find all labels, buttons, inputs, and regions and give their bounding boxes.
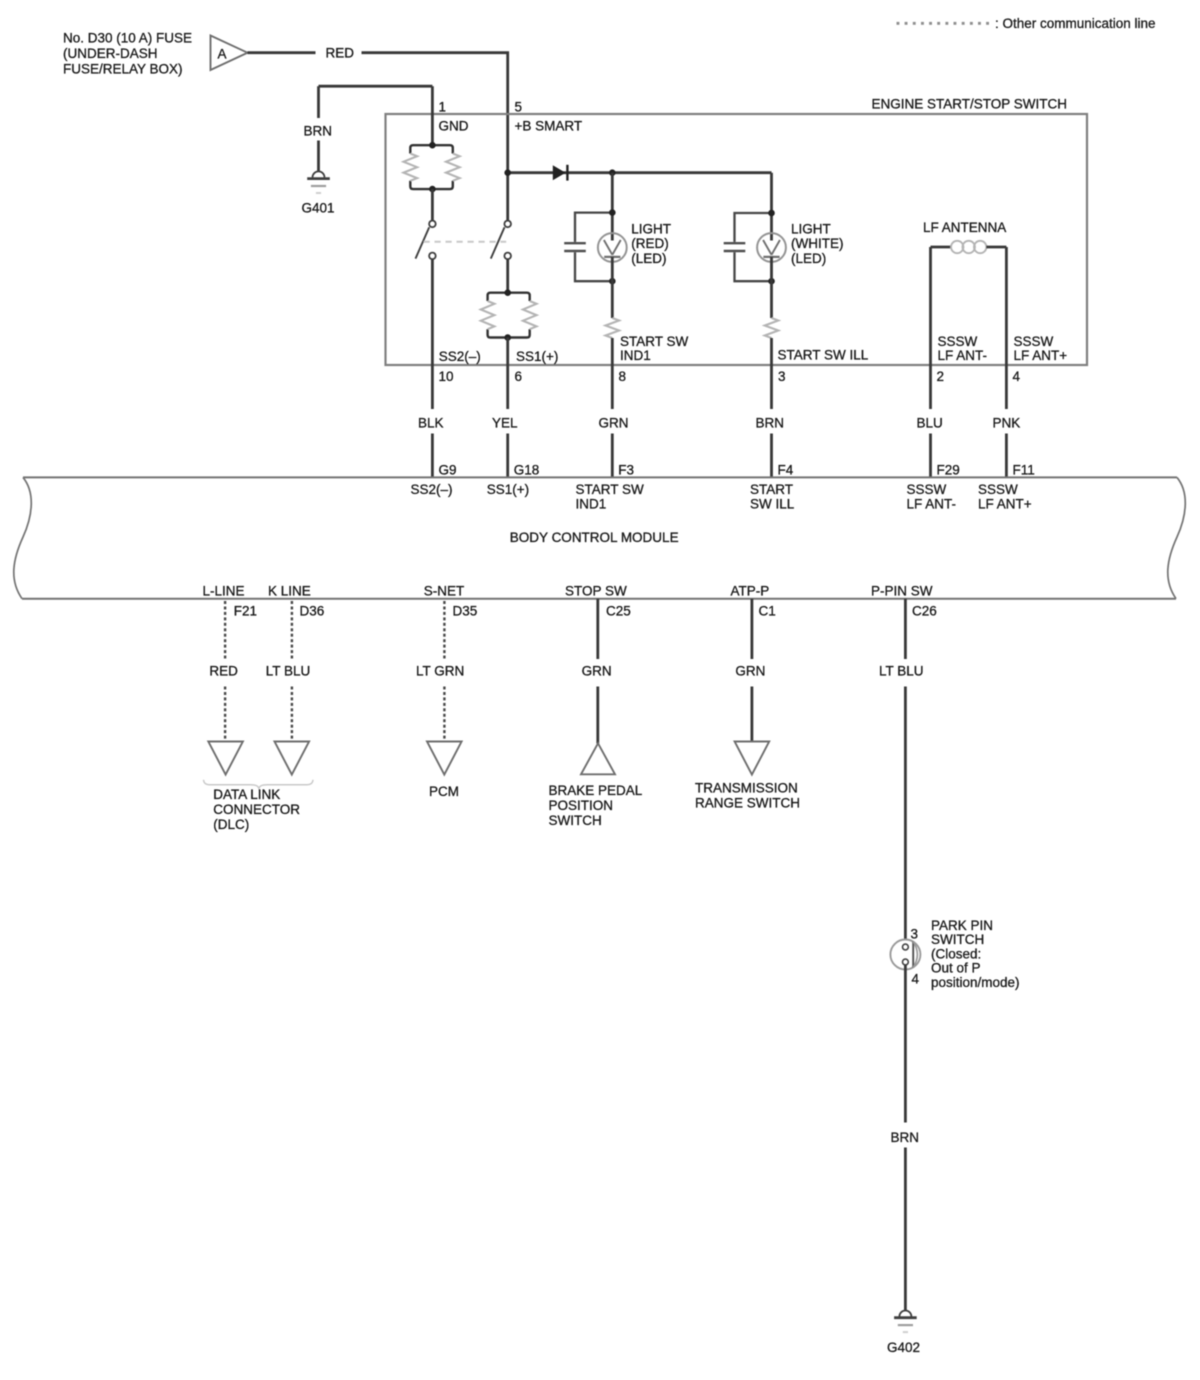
wire YEL to BCM <box>506 434 509 478</box>
wire LED white to resistor R4 <box>770 257 773 318</box>
svg-text:position/mode): position/mode) <box>931 975 1020 990</box>
svg-text:RED: RED <box>209 663 238 678</box>
svg-text:(LED): (LED) <box>631 251 666 266</box>
svg-text:SSSW: SSSW <box>1014 334 1054 349</box>
resistor R2a zigzag <box>481 301 495 329</box>
svg-text:8: 8 <box>619 369 627 384</box>
svg-text:LIGHT: LIGHT <box>631 222 671 237</box>
switch SS2 top contact <box>429 221 436 228</box>
svg-text:PARK PIN: PARK PIN <box>931 918 993 933</box>
junction dot R1 top <box>429 142 436 149</box>
svg-text:No. D30 (10 A) FUSE: No. D30 (10 A) FUSE <box>63 30 192 45</box>
junction dot cap C1 bottom <box>609 278 616 285</box>
ground G401 <box>313 171 325 177</box>
junction dot R2 bottom <box>504 334 511 341</box>
distribution wire +B <box>508 171 772 174</box>
svg-text:A: A <box>218 46 227 61</box>
fuse connector A triangle <box>211 36 248 71</box>
switch SS1 bottom contact <box>504 253 511 260</box>
resistor R4 zigzag <box>765 318 779 338</box>
comm wire L-LINE upper <box>224 601 226 604</box>
svg-text:F4: F4 <box>778 462 794 477</box>
svg-text:PCM: PCM <box>429 784 459 799</box>
junction node light red top <box>609 169 616 176</box>
resistor R1a zigzag <box>404 154 418 181</box>
svg-text:C26: C26 <box>912 604 937 619</box>
svg-text:F21: F21 <box>234 604 257 619</box>
svg-text:PNK: PNK <box>993 415 1021 430</box>
connector triangle ATP-P <box>735 742 770 775</box>
wire RED to +B SMART pin 5 <box>362 53 508 173</box>
svg-text:LT BLU: LT BLU <box>879 663 924 678</box>
svg-text:SWITCH: SWITCH <box>549 813 602 828</box>
wire GRN to BCM <box>611 434 614 478</box>
wire fuse to RED label <box>248 51 316 54</box>
svg-text:START SW: START SW <box>620 334 689 349</box>
comm wire L-LINE lower <box>224 687 226 690</box>
svg-text:S-NET: S-NET <box>424 583 465 598</box>
svg-text:LT GRN: LT GRN <box>416 663 464 678</box>
resistor pair R1 frame <box>410 145 453 153</box>
resistor R1b zigzag <box>446 154 460 181</box>
park pin switch contact 3 <box>903 944 909 950</box>
svg-text:GRN: GRN <box>582 663 612 678</box>
wire +B to switch SS1 <box>506 173 509 221</box>
svg-text:BRN: BRN <box>304 123 333 138</box>
wire down to BRN label <box>317 86 320 118</box>
svg-text:SW ILL: SW ILL <box>750 496 795 511</box>
wire P-PIN SW to park pin switch <box>904 687 907 945</box>
svg-text:START SW ILL: START SW ILL <box>778 347 869 362</box>
wire into LED red <box>611 173 614 241</box>
junction dot cap C1 top <box>609 209 616 216</box>
svg-text:G18: G18 <box>514 462 540 477</box>
connector triangle K LINE <box>275 742 310 775</box>
svg-text:3: 3 <box>778 369 786 384</box>
LED light white <box>757 233 786 262</box>
junction dot cap C2 bottom <box>768 278 775 285</box>
svg-text:F11: F11 <box>1013 462 1035 477</box>
svg-text:LF ANT-: LF ANT- <box>907 496 957 511</box>
svg-text:YEL: YEL <box>492 415 518 430</box>
switch SS2 blade <box>416 227 430 258</box>
wire R2 to pin 6 <box>506 338 509 410</box>
svg-text:: Other communication line: : Other communication line <box>995 16 1156 31</box>
svg-text:4: 4 <box>912 972 920 987</box>
svg-text:+B SMART: +B SMART <box>515 118 583 133</box>
wire R1 to switch SS2 <box>431 189 434 221</box>
wire GND pin1 to BRN branch <box>319 85 433 88</box>
inductor LF antenna coil <box>951 241 986 253</box>
svg-text:SSSW: SSSW <box>907 482 947 497</box>
svg-text:G9: G9 <box>439 462 457 477</box>
switch SS1 blade <box>491 227 505 258</box>
wire ATP-P upper <box>751 599 754 659</box>
svg-text:K LINE: K LINE <box>268 583 311 598</box>
svg-text:LF ANT-: LF ANT- <box>938 348 988 363</box>
junction dot R1 bottom <box>429 186 436 193</box>
svg-text:F3: F3 <box>618 462 634 477</box>
svg-text:(RED): (RED) <box>631 236 669 251</box>
wire antenna- to pin 2 <box>929 247 932 409</box>
svg-text:D36: D36 <box>300 604 325 619</box>
wire R4 to pin 3 <box>770 338 773 409</box>
svg-text:RANGE SWITCH: RANGE SWITCH <box>695 795 800 810</box>
park pin switch blade chord <box>912 942 914 968</box>
park pin switch blade arc <box>913 942 917 968</box>
wire P-PIN SW upper <box>904 599 907 659</box>
capacitor C1 plates <box>564 242 586 244</box>
wire BRN to BCM <box>770 434 773 478</box>
antenna lead right <box>986 246 1006 249</box>
comm wire K LINE lower <box>291 687 293 690</box>
capacitor C2 lower loop <box>735 252 772 281</box>
wire LED red to resistor R3 <box>611 257 614 318</box>
svg-text:(Closed:: (Closed: <box>931 946 981 961</box>
connector triangle S-NET <box>427 742 462 775</box>
svg-text:ENGINE START/STOP SWITCH: ENGINE START/STOP SWITCH <box>872 97 1068 112</box>
svg-text:IND1: IND1 <box>576 496 607 511</box>
ground G402 <box>899 1311 911 1317</box>
resistor pair R2 frame <box>488 293 530 301</box>
capacitor C2 plates <box>724 242 746 244</box>
svg-text:SSSW: SSSW <box>978 482 1018 497</box>
wire STOP SW lower <box>596 687 599 744</box>
svg-text:FUSE/RELAY BOX): FUSE/RELAY BOX) <box>63 62 183 77</box>
svg-text:(LED): (LED) <box>791 251 826 266</box>
comm wire K LINE upper <box>291 601 293 604</box>
svg-text:(WHITE): (WHITE) <box>791 236 843 251</box>
capacitor C1 upper loop <box>575 213 612 242</box>
connector triangle STOP SW (brake pedal) <box>581 743 615 774</box>
svg-text:SWITCH: SWITCH <box>931 932 984 947</box>
svg-text:LT BLU: LT BLU <box>266 663 311 678</box>
svg-text:BLK: BLK <box>418 415 444 430</box>
svg-text:SS1(+): SS1(+) <box>516 349 558 364</box>
switch SS2 bottom contact <box>429 253 436 260</box>
svg-text:5: 5 <box>515 100 523 115</box>
svg-text:C25: C25 <box>606 604 631 619</box>
legend: other communication line dotted sample <box>897 22 900 25</box>
wire BRN to ground G402 <box>904 1148 907 1311</box>
svg-text:L-LINE: L-LINE <box>203 583 245 598</box>
wire antenna+ to pin 4 <box>1005 247 1008 409</box>
svg-text:START SW: START SW <box>576 482 645 497</box>
wire into LED white <box>770 173 773 241</box>
svg-text:D35: D35 <box>453 604 478 619</box>
svg-text:POSITION: POSITION <box>549 798 614 813</box>
wire SS1 to resistor pair R2 <box>506 259 509 293</box>
svg-text:START: START <box>750 482 793 497</box>
svg-text:TRANSMISSION: TRANSMISSION <box>695 780 798 795</box>
svg-text:1: 1 <box>439 100 447 115</box>
comm wire S-NET upper <box>443 601 445 604</box>
body control module band bottom edge <box>22 598 1176 600</box>
svg-text:Out of P: Out of P <box>931 961 981 976</box>
svg-text:LF ANT+: LF ANT+ <box>978 496 1032 511</box>
capacitor C2 upper loop <box>735 213 772 242</box>
junction dot R2 top <box>504 289 511 296</box>
svg-text:LF ANTENNA: LF ANTENNA <box>923 220 1006 235</box>
svg-text:GND: GND <box>439 118 469 133</box>
svg-text:G402: G402 <box>887 1340 920 1355</box>
body control module band top edge <box>23 476 1177 478</box>
wire BLK to BCM <box>431 434 434 478</box>
LED light red <box>598 233 627 262</box>
diode D1 <box>553 165 566 180</box>
svg-text:4: 4 <box>1013 369 1021 384</box>
svg-text:BRAKE PEDAL: BRAKE PEDAL <box>549 783 643 798</box>
wire ATP-P lower <box>751 687 754 742</box>
capacitor C1 lower loop <box>575 252 612 281</box>
svg-text:ATP-P: ATP-P <box>731 583 770 598</box>
svg-text:C1: C1 <box>759 604 776 619</box>
svg-text:SSSW: SSSW <box>938 334 978 349</box>
connector triangle L-LINE <box>208 742 243 775</box>
wire pin1 to resistor pair R1 <box>431 86 434 145</box>
switch SS1 top contact <box>504 221 511 228</box>
band right torn edge <box>1168 477 1185 598</box>
svg-text:SS1(+): SS1(+) <box>487 482 529 497</box>
park pin switch contact 4 <box>903 959 909 965</box>
svg-text:P-PIN SW: P-PIN SW <box>871 583 933 598</box>
svg-text:LIGHT: LIGHT <box>791 222 831 237</box>
svg-text:6: 6 <box>515 369 523 384</box>
switch gang dashed link <box>424 241 507 243</box>
svg-text:10: 10 <box>439 369 454 384</box>
antenna lead left <box>931 246 952 249</box>
park pin switch circle <box>890 940 920 970</box>
svg-text:LF ANT+: LF ANT+ <box>1014 348 1068 363</box>
svg-text:BODY CONTROL MODULE: BODY CONTROL MODULE <box>510 530 679 545</box>
svg-text:BRN: BRN <box>756 415 785 430</box>
svg-text:RED: RED <box>326 46 355 61</box>
svg-text:BRN: BRN <box>891 1130 920 1145</box>
comm wire S-NET lower <box>443 687 445 690</box>
junction dot cap C2 top <box>768 210 775 217</box>
band left torn edge <box>14 477 31 598</box>
svg-text:3: 3 <box>911 926 919 941</box>
svg-text:(DLC): (DLC) <box>213 817 249 832</box>
wire STOP SW upper <box>596 599 599 659</box>
wire R3 to pin 8 <box>611 338 614 409</box>
svg-text:SS2(–): SS2(–) <box>411 482 453 497</box>
engine start/stop switch box <box>386 114 1088 365</box>
wire SS2 to pin 10 <box>431 259 434 409</box>
svg-text:2: 2 <box>937 369 945 384</box>
wire park pin to BRN label <box>904 965 907 1123</box>
svg-text:GRN: GRN <box>735 663 765 678</box>
svg-text:(UNDER-DASH: (UNDER-DASH <box>63 46 158 61</box>
junction node +B <box>504 169 511 176</box>
svg-text:G401: G401 <box>302 201 335 216</box>
svg-text:BLU: BLU <box>917 415 943 430</box>
wire BLU to BCM <box>929 434 932 478</box>
svg-text:CONNECTOR: CONNECTOR <box>213 802 300 817</box>
svg-text:SS2(–): SS2(–) <box>439 349 481 364</box>
resistor R2b zigzag <box>523 301 537 329</box>
DLC group brace <box>204 780 314 789</box>
wire PNK to BCM <box>1005 434 1008 478</box>
svg-text:STOP SW: STOP SW <box>565 583 627 598</box>
resistor R3 zigzag <box>606 318 620 338</box>
svg-text:IND1: IND1 <box>620 348 651 363</box>
svg-text:F29: F29 <box>937 462 960 477</box>
svg-text:DATA LINK: DATA LINK <box>213 787 280 802</box>
svg-text:GRN: GRN <box>599 415 629 430</box>
wire BRN to ground G401 <box>317 141 320 172</box>
